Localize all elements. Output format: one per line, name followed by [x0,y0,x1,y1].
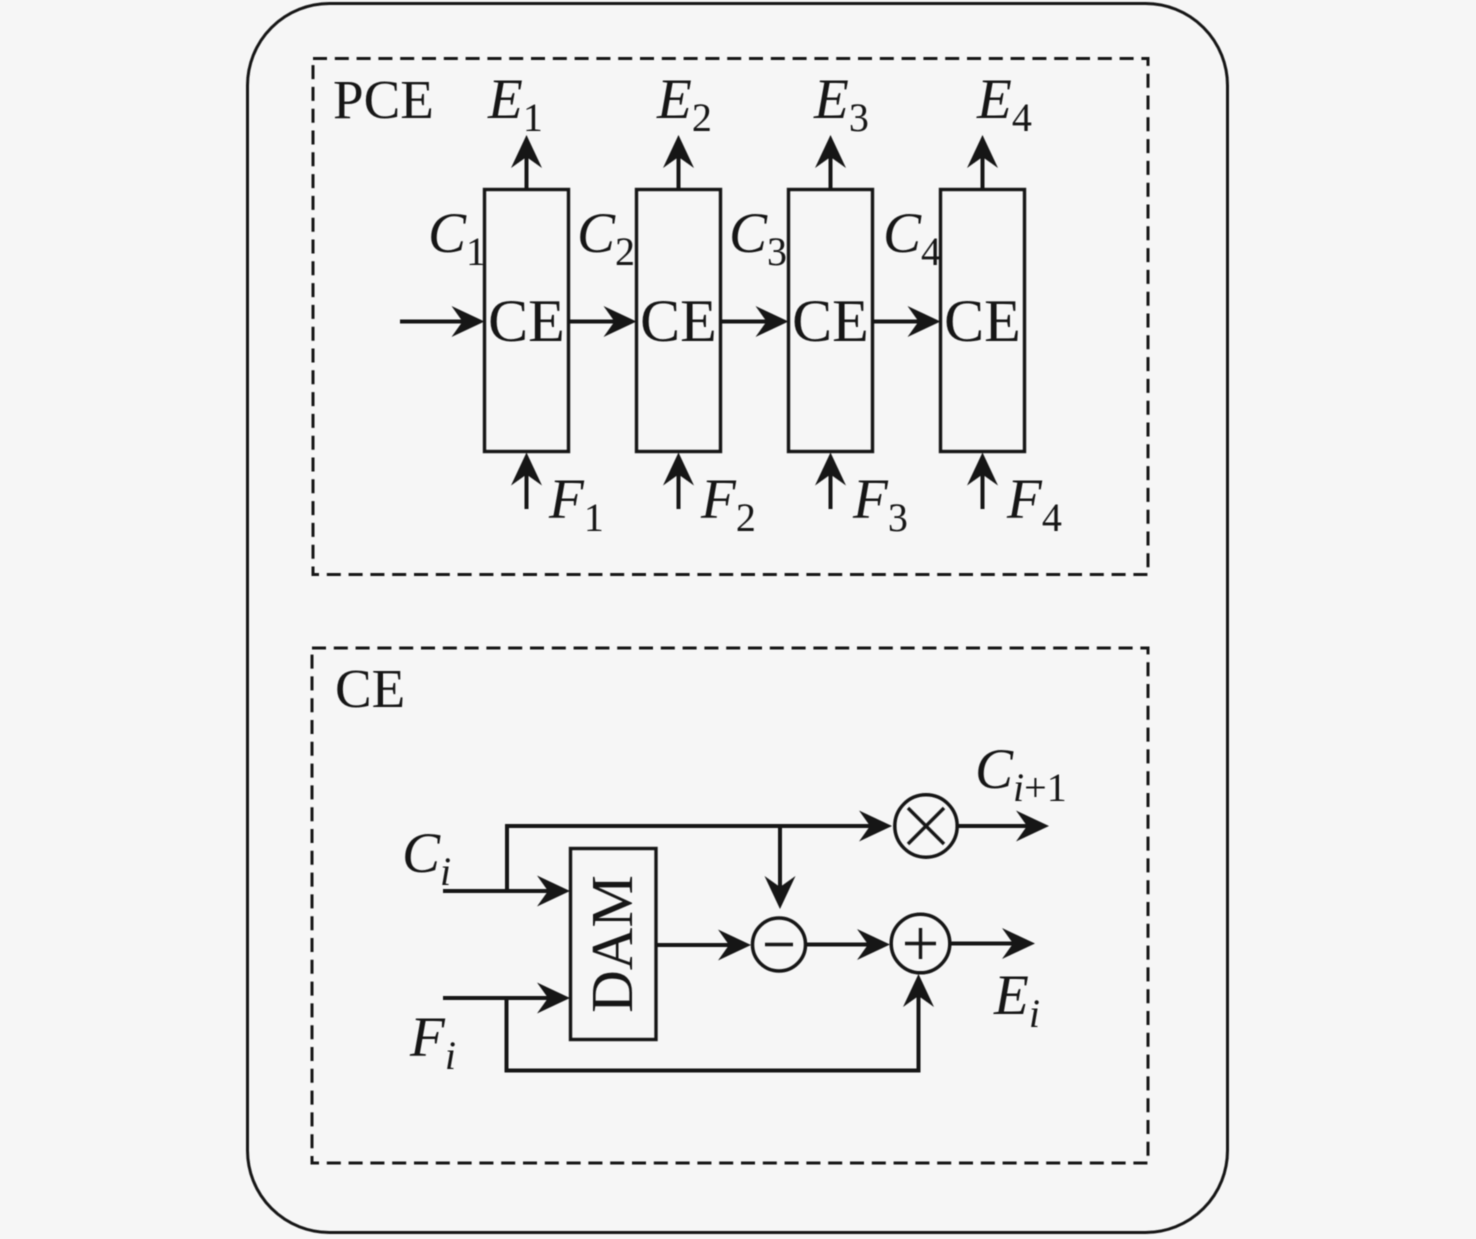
wire arrow CE1 to CE2 [569,306,637,337]
adder circle [891,914,950,973]
svg-text:CE: CE [640,288,717,354]
wire top line to multiplier [505,811,892,842]
PCE dashed boundary box [313,59,1148,575]
wire input arrow into CE1 [400,306,485,337]
wire output arrow E2 [663,135,694,190]
svg-text:CE: CE [944,288,1021,354]
svg-text:CE: CE [335,658,405,719]
wire feedback bottom line [505,1069,921,1073]
wire feedback up into adder [903,974,934,1072]
block CE1 [485,190,569,452]
svg-text:DAM: DAM [579,875,645,1013]
wire output arrow C(i+1) [957,811,1050,842]
wire input arrow F3 [815,453,846,510]
block CE4 [941,190,1025,452]
wire output arrow E3 [815,135,846,190]
svg-text:CE: CE [488,288,565,354]
block CE3 [789,190,873,452]
CE dashed boundary box [312,648,1148,1163]
wire output arrow E1 [511,135,542,190]
wire branch Ci up to multiplier line [505,824,509,891]
svg-text:CE: CE [792,288,869,354]
block CE2 [637,190,721,452]
wire DAM output to subtractor [656,930,751,961]
wire arrow CE3 to CE4 [873,306,941,337]
multiplier circle [895,795,957,857]
wire branch down into subtractor [765,826,796,909]
block DAM [571,849,657,1040]
wire input arrow F1 [511,453,542,510]
wire subtractor to adder [807,929,891,960]
wire Ci input arrow into DAM [443,876,570,907]
outer rounded border frame [248,4,1228,1233]
wire input arrow F2 [663,453,694,510]
wire arrow CE2 to CE3 [721,306,789,337]
svg-text:PCE: PCE [333,69,434,130]
wire input arrow F4 [967,453,998,510]
wire output arrow Ei [951,928,1035,959]
wire Fi feedback branch down [505,998,509,1072]
wire Fi input arrow into DAM [443,983,570,1014]
wire output arrow E4 [967,135,998,190]
subtractor circle [753,918,806,971]
